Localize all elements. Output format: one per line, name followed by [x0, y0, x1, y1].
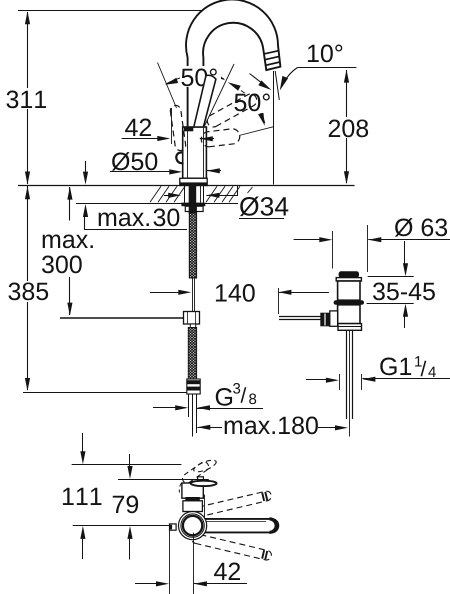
- 50deg-1 left fan line: [158, 63, 177, 109]
- label O34: [239, 197, 288, 219]
- dimension 311 arrows: [25, 11, 30, 184]
- 35-45 bottom line: [367, 304, 414, 329]
- label 140: [216, 284, 255, 302]
- dimension max.30 lower arrow: [83, 204, 88, 229]
- label O50: [112, 152, 157, 171]
- label 50deg-1: [180, 66, 221, 87]
- base flange: [180, 178, 208, 185]
- lever dashed 40deg: [207, 94, 256, 127]
- stream vertical reference line: [273, 71, 275, 185]
- drain side knob: [320, 311, 337, 326]
- label 42 bottom: [214, 563, 240, 580]
- G3/8 dim line: [153, 405, 263, 410]
- 50deg-1 right fan line: [205, 64, 235, 126]
- bv dark band: [185, 497, 199, 501]
- label 50deg-2: [233, 93, 271, 113]
- top reference line (spout height): [18, 10, 221, 12]
- dimension 311 line: [27, 12, 29, 184]
- rod tee fitting: [184, 312, 200, 328]
- upper braided hose: [189, 212, 196, 279]
- drain right rod: [279, 317, 321, 320]
- deck section hatching: [150, 186, 253, 202]
- drain centerline: [349, 330, 351, 436]
- dimension 140 left: [150, 290, 191, 295]
- hose connector: [187, 379, 200, 394]
- dimension 385 arrows: [25, 186, 30, 391]
- dimension 385 line: [27, 186, 29, 390]
- shank washer: [181, 203, 205, 207]
- dimension O63 arrows: [294, 237, 450, 242]
- label 208: [329, 120, 368, 138]
- bv centerline left: [169, 531, 171, 594]
- pop-up rod: [193, 278, 195, 312]
- label 35-45: [373, 283, 435, 301]
- 208 top reference line: [298, 67, 357, 69]
- dimension 208 arrows: [344, 70, 349, 185]
- bv right edge line: [204, 495, 206, 518]
- dimension max.300 arrows: [67, 187, 72, 316]
- bv body lower: [183, 501, 203, 512]
- bv body dashed arc: [179, 483, 181, 493]
- dimension max180 right arrow: [318, 425, 348, 430]
- dimension max.30 upper arrow: [83, 161, 88, 185]
- bv lever pad (flat oval): [191, 481, 217, 486]
- bv lever stem: [198, 477, 204, 483]
- 385 bottom reference line: [23, 392, 187, 394]
- dimension O50 line: [110, 169, 182, 174]
- threaded shank: [189, 186, 197, 214]
- 50deg-1 arc: [166, 75, 224, 84]
- drain bottom flange: [338, 324, 362, 331]
- bv outer circle: [179, 511, 207, 539]
- bv dashed rod lower: [192, 534, 272, 560]
- label max.30: [99, 209, 180, 227]
- dimension max180 left arrow: [197, 425, 222, 430]
- dimension 79 up: [127, 526, 132, 560]
- bv dashed rod upper: [192, 491, 272, 517]
- bv centerline rod: [193, 533, 195, 594]
- max.300 bottom reference line (pop-up rod): [60, 317, 184, 319]
- dimension 111 down: [80, 433, 85, 464]
- bv middle ring: [181, 514, 204, 537]
- label max180: [225, 417, 318, 435]
- dimension O50 right arrow: [207, 168, 221, 173]
- 10deg leader arc left: [250, 74, 272, 91]
- drain plug cap: [339, 271, 359, 277]
- O63 extension lines: [333, 225, 368, 272]
- O34 leader vertical: [237, 185, 239, 196]
- dimension O34 arrows: [164, 193, 238, 198]
- dimension 42 right arrow: [200, 136, 214, 141]
- dimension 42 bottom: [135, 581, 247, 586]
- label 79: [113, 496, 138, 514]
- 35-45 top line: [368, 241, 414, 277]
- lever dashed up-left: [170, 105, 185, 150]
- lower braided hose: [188, 328, 196, 380]
- bv inner bold ring: [183, 516, 202, 535]
- label max.300: [42, 235, 93, 274]
- body top-left notch: [184, 127, 193, 132]
- 111 top reference line: [72, 464, 182, 466]
- bottom axis reference line: [73, 525, 170, 527]
- 79 top reference line: [118, 479, 209, 481]
- dimension max.300 line: [69, 187, 71, 315]
- drain body lower: [338, 305, 360, 324]
- drain o-ring: [334, 300, 364, 305]
- stream tilted line (10 deg): [275, 71, 279, 100]
- bv dashed lever rod (raised): [182, 462, 208, 483]
- body inner lines: [188, 128, 204, 178]
- hole walls: [185, 186, 204, 203]
- label G1-1/4: [380, 356, 436, 377]
- label 311: [6, 91, 46, 109]
- G1-1/4 arrows: [306, 377, 450, 383]
- 10deg leader arc right: [280, 68, 298, 91]
- label 42 top: [125, 119, 151, 136]
- dimension 140 right: [278, 290, 329, 295]
- 50deg-2 arc: [241, 91, 265, 124]
- dimension 79 down: [127, 454, 132, 479]
- bv solid lever rod: [189, 519, 278, 533]
- max.30 label line: [84, 229, 187, 231]
- aerator bands: [264, 51, 280, 66]
- spout ring detail (left hook): [176, 152, 183, 163]
- bv left nub: [170, 524, 177, 530]
- deck (counter) top line: [18, 185, 355, 187]
- label 10deg: [308, 45, 342, 63]
- label G3/8: [216, 383, 256, 406]
- shank nut: [185, 206, 203, 213]
- bv dashed lever-pad (raised): [192, 458, 217, 474]
- drain tailpipe: [347, 330, 353, 419]
- 50deg-2 fan line: [239, 127, 274, 136]
- dimension 111 up: [80, 526, 85, 559]
- spout high arc tube: [186, 0, 280, 128]
- lever solid (up-right): [194, 75, 216, 127]
- 50deg-2 arrowheads: [228, 82, 265, 126]
- 42 extension line: [171, 108, 173, 144]
- label 111: [63, 488, 102, 505]
- drain top flange: [336, 278, 361, 281]
- G1-1/4 extension lines: [340, 374, 362, 390]
- 50deg-1 arrowheads: [165, 71, 225, 84]
- hose end pipe: [189, 394, 197, 437]
- label O63: [395, 218, 447, 237]
- bv body: [182, 483, 203, 498]
- dimension 42 line: [122, 136, 171, 141]
- 140 extension tick: [278, 288, 280, 314]
- dimension 208 line: [346, 70, 348, 183]
- faucet body: [183, 127, 207, 178]
- lever dashed horizontal: [201, 129, 240, 147]
- deck bottom line: [76, 203, 238, 205]
- label 385: [8, 283, 48, 301]
- drain body upper: [338, 281, 360, 300]
